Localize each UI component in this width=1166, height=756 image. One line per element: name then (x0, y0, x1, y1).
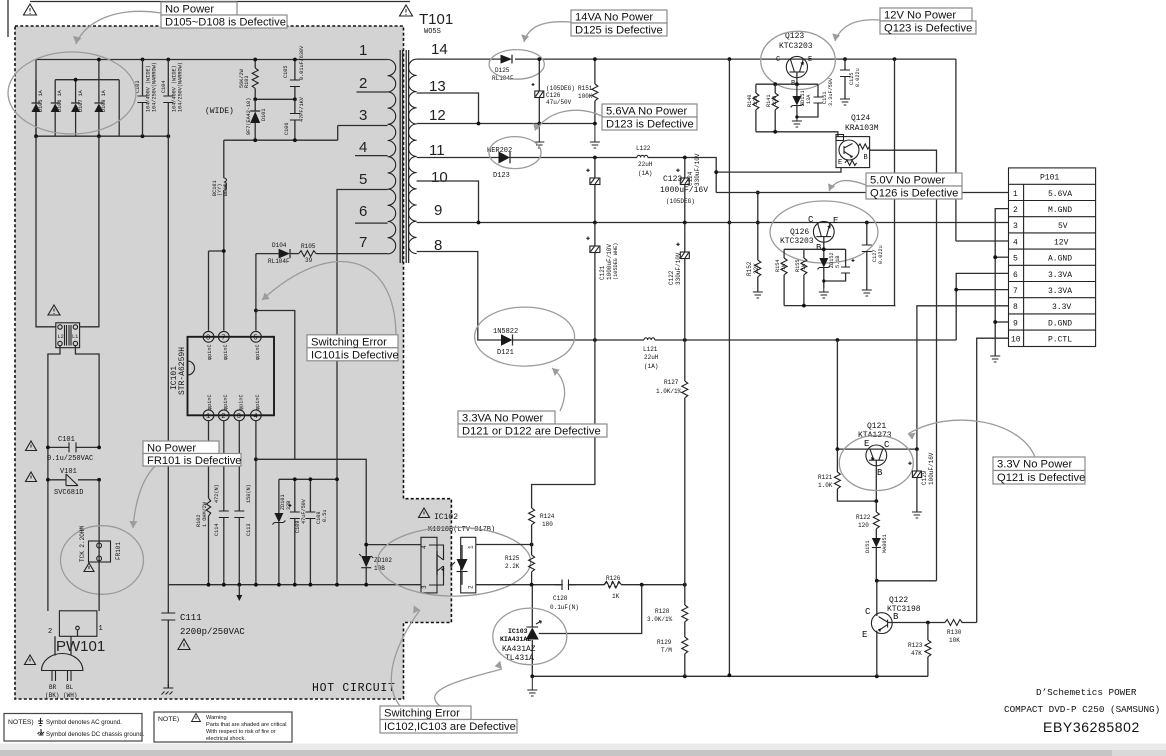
svg-text:KTC3203: KTC3203 (779, 42, 813, 51)
wire bridge right column down to L101 (80, 136, 99, 327)
warning triangle V101 row (26, 472, 37, 482)
svg-text:P101: P101 (1040, 174, 1059, 183)
svg-text:2: 2 (48, 628, 52, 636)
svg-text:D.GND: D.GND (1048, 319, 1072, 328)
callout arc Q126 (829, 181, 866, 191)
IC101 pin1 bottom (203, 394, 214, 421)
callout box 14VA No Power (571, 10, 667, 37)
svg-text:5.6VA No Power: 5.6VA No Power (606, 106, 688, 118)
svg-text:47uF/50V: 47uF/50V (301, 498, 307, 524)
svg-text:56K/2W: 56K/2W (239, 68, 245, 88)
svg-text:HOT CIRCUIT: HOT CIRCUIT (312, 682, 396, 695)
svg-text:3.3uF/50V: 3.3uF/50V (828, 77, 834, 106)
svg-text:0.022u: 0.022u (878, 245, 884, 264)
wire pin6 stub (355, 222, 388, 224)
svg-text:220: 220 (753, 96, 759, 105)
svg-text:14VA No Power: 14VA No Power (575, 12, 653, 24)
svg-text:TCK 2.2OHM: TCK 2.2OHM (79, 526, 86, 562)
wire 5V line pin9 bus through Q126 to P101 (729, 222, 1008, 224)
svg-text:5: 5 (359, 171, 367, 188)
svg-text:B: B (816, 243, 822, 253)
svg-text:3.3VA: 3.3VA (1048, 271, 1072, 280)
resistor R129 (657, 637, 688, 676)
callout arc IC101 (262, 262, 396, 335)
svg-text:R122: R122 (856, 514, 871, 521)
capacitor C111 (161, 585, 245, 688)
diode ZD121 (865, 534, 888, 580)
resistor R126 (604, 575, 621, 600)
resistor R151 (578, 59, 598, 125)
svg-text:C114: C114 (214, 524, 220, 536)
svg-text:22K: 22K (753, 263, 760, 274)
svg-text:C104: C104 (161, 81, 167, 93)
svg-text:47K: 47K (911, 650, 922, 657)
svg-text:180: 180 (542, 521, 553, 528)
svg-text:0.01uF/630V: 0.01uF/630V (299, 45, 305, 80)
svg-text:2: 2 (221, 413, 225, 421)
svg-text:E: E (808, 56, 812, 64)
svg-text:R121: R121 (818, 474, 833, 481)
svg-text:13A: 13A (806, 94, 812, 104)
svg-text:3: 3 (359, 107, 367, 124)
svg-text:Symbol denotes AC ground.: Symbol denotes AC ground. (46, 719, 122, 726)
svg-text:C128: C128 (553, 595, 568, 602)
wire 14VA long vertical feed (728, 59, 730, 675)
svg-text:12: 12 (429, 107, 446, 124)
IC101 pin4 bottom (251, 394, 262, 421)
svg-text:1K: 1K (612, 593, 620, 600)
Q123 lower rail wire to Q124 (756, 132, 838, 137)
svg-text:V101: V101 (60, 468, 77, 476)
bead BC101 (212, 140, 229, 245)
resistor R125 (505, 545, 535, 585)
svg-text:1000uF/16V: 1000uF/16V (660, 186, 708, 195)
wire 3.3VA drop to Q121 (836, 340, 838, 449)
svg-text:1.0K/1%: 1.0K/1% (656, 388, 682, 395)
Q126 base top rail wire (784, 249, 846, 261)
wire P101 pin9 D.GND stub (995, 321, 1008, 323)
svg-text:104/250V(NARROW): 104/250V(NARROW) (152, 62, 158, 112)
svg-text:φpinC: φpinC (239, 394, 245, 410)
svg-text:TL431A: TL431A (505, 654, 534, 663)
capacitor C129 (908, 449, 935, 512)
top B+ bus wire pin1 (36, 59, 388, 61)
svg-text:With respect to risk of fire o: With respect to risk of fire or (206, 729, 276, 735)
transistor Q122 (862, 581, 921, 677)
diode D105 (32, 80, 45, 137)
capacitor C109 (289, 479, 308, 584)
svg-text:C: C (776, 56, 780, 64)
resistor R121 (818, 449, 876, 501)
snubber lower rail wire to pin3 (224, 126, 338, 141)
svg-text:3.3VA No Power: 3.3VA No Power (462, 413, 544, 425)
diode D101 (246, 98, 267, 141)
zener ZD152 (818, 252, 842, 288)
callout arc D105 (76, 11, 161, 44)
resistor R141 (766, 84, 778, 132)
warning triangle below C111 (178, 639, 190, 650)
svg-text:T101: T101 (419, 11, 453, 28)
ellipse highlight FR101 (61, 526, 144, 595)
fuse FR101 (79, 526, 122, 611)
diode D107 (71, 80, 84, 137)
svg-text:COMPACT DVD-P C250 (SAMSUNG): COMPACT DVD-P C250 (SAMSUNG) (1004, 704, 1160, 715)
ground C125 (840, 99, 850, 105)
svg-text:3: 3 (421, 585, 428, 589)
capacitor C153 (824, 259, 855, 281)
svg-text:1: 1 (206, 413, 210, 421)
svg-text:0.1u/250VAC: 0.1u/250VAC (47, 455, 93, 463)
svg-text:6: 6 (1013, 271, 1018, 280)
svg-text:D105~D108 is Defective: D105~D108 is Defective (165, 17, 286, 29)
hot circuit shaded region (15, 26, 451, 699)
svg-text:D105 1A: D105 1A (38, 89, 44, 112)
diode D123 HER202 (487, 147, 512, 180)
capacitor C127 (862, 223, 884, 291)
svg-text:D107 1A: D107 1A (78, 89, 84, 112)
svg-text:EBY36285802: EBY36285802 (1043, 719, 1140, 735)
diode D104 (256, 242, 290, 265)
svg-text:D’Schemetics POWER: D’Schemetics POWER (1036, 687, 1137, 698)
svg-text:D123 is Defective: D123 is Defective (606, 119, 694, 131)
gap for C128 (563, 584, 568, 586)
svg-text:E: E (864, 439, 869, 449)
wire P101 pin4 12V stub (956, 240, 1009, 242)
diode D108 (94, 60, 107, 137)
ellipse highlight D105-D108 bridge (8, 52, 136, 134)
svg-text:No Power: No Power (165, 4, 214, 16)
resistor R105 (291, 243, 316, 264)
wire 3.3VA rail (655, 339, 956, 341)
node dots bridge (74, 78, 78, 82)
svg-text:(BK): (BK) (45, 692, 59, 699)
wire Q124 E down-left (716, 168, 841, 173)
callout arc D123 (537, 110, 602, 129)
wire left leg of bridge (35, 60, 37, 137)
ellipse highlight Q126 (770, 201, 878, 263)
callout box No Power D105 (161, 2, 287, 29)
callout box 5.0V No Power (866, 173, 962, 200)
ground M.GND (990, 356, 1000, 362)
svg-text:3.3VA: 3.3VA (1048, 287, 1072, 296)
svg-text:3: 3 (237, 413, 241, 421)
svg-text:WO5S: WO5S (424, 28, 441, 36)
svg-text:L2: L2 (58, 334, 64, 340)
svg-text:(WH): (WH) (63, 692, 77, 699)
svg-text:1000uF/10V: 1000uF/10V (606, 244, 613, 280)
svg-text:L121: L121 (643, 346, 658, 353)
svg-text:Q123 is Defective: Q123 is Defective (884, 23, 972, 35)
svg-text:1K: 1K (781, 263, 787, 270)
resistor R130 (945, 620, 962, 645)
svg-text:B: B (877, 468, 883, 478)
svg-text:472(N): 472(N) (214, 484, 220, 503)
resistor R122 (856, 501, 879, 538)
svg-text:12V No Power: 12V No Power (884, 10, 956, 22)
svg-text:R126: R126 (606, 575, 621, 582)
svg-text:Q121 is Defective: Q121 is Defective (997, 472, 1085, 484)
callout box 5.6VA No Power (602, 104, 697, 131)
ellipse highlight IC102 (377, 527, 530, 596)
svg-text:5V: 5V (1058, 222, 1068, 231)
IC101 pin8 pin7 tie wire (209, 246, 224, 331)
svg-text:2: 2 (359, 75, 367, 92)
wire pin3 line (338, 125, 388, 127)
resistor R140 (747, 84, 759, 132)
svg-text:7: 7 (1013, 287, 1018, 296)
svg-text:M.GND: M.GND (1048, 206, 1072, 215)
svg-text:C111: C111 (180, 613, 202, 623)
callout arc Q123 (835, 20, 880, 41)
svg-text:B: B (893, 612, 899, 622)
resistor R127 (656, 340, 688, 585)
IC101 pin8 top (203, 331, 214, 360)
svg-text:R152: R152 (746, 261, 753, 276)
svg-text:C124: C124 (687, 171, 694, 186)
svg-text:Q121: Q121 (867, 422, 886, 431)
svg-text:C123: C123 (663, 175, 682, 184)
svg-text:Q123: Q123 (785, 32, 804, 41)
IC102 LED (451, 545, 468, 585)
svg-text:2: 2 (468, 585, 475, 589)
svg-text:1: 1 (468, 545, 475, 549)
ellipse highlight Q123 (761, 31, 836, 89)
capacitor C103 (135, 60, 158, 137)
capacitor C101 (47, 436, 99, 463)
svg-text:C129: C129 (921, 470, 928, 485)
svg-text:4: 4 (253, 413, 257, 421)
svg-text:E: E (862, 630, 867, 640)
Q126 base bottom rail wire (784, 305, 895, 307)
capacitor C104 (161, 60, 184, 137)
svg-text:C126: C126 (546, 92, 561, 99)
svg-text:3: 3 (1013, 222, 1018, 231)
wire bus pin9 long (417, 222, 730, 224)
wire V101 right column down to FR101 (98, 480, 100, 544)
ground IC103 (527, 676, 537, 696)
svg-text:120: 120 (858, 522, 869, 529)
svg-text:(1A): (1A) (644, 363, 658, 370)
svg-text:2: 2 (1013, 206, 1018, 215)
svg-text:330uF/10V: 330uF/10V (675, 252, 682, 285)
svg-text:C105: C105 (283, 66, 289, 78)
svg-text:KRA103M: KRA103M (845, 124, 879, 133)
resistor R155 (795, 258, 807, 306)
svg-text:electrical shock.: electrical shock. (206, 736, 246, 742)
svg-text:E: E (833, 216, 838, 226)
capacitor C126 (532, 59, 575, 123)
wire Q126 rail right leg up (894, 305, 897, 307)
capacitor C105 (283, 45, 305, 99)
svg-text:9: 9 (1013, 319, 1018, 328)
svg-text:22uH: 22uH (644, 354, 659, 361)
ellipse highlight D123 (489, 137, 541, 169)
svg-text:FR101 is Defective: FR101 is Defective (147, 455, 242, 467)
svg-text:C101: C101 (58, 436, 75, 444)
callout arc IC103 (435, 669, 502, 706)
Q123 base rail wire (756, 83, 818, 85)
svg-text:1: 1 (99, 625, 103, 633)
snubber node rail wire (255, 98, 295, 100)
wire IC101 pin2 down (223, 421, 225, 511)
svg-text:R105: R105 (301, 243, 316, 250)
svg-text:C: C (808, 215, 814, 225)
capacitor C123 (586, 158, 708, 223)
wire pin4 feedback jog node (254, 457, 258, 461)
svg-text:R127: R127 (664, 379, 679, 386)
svg-text:4: 4 (359, 139, 367, 156)
svg-text:100K: 100K (578, 93, 593, 100)
svg-text:R123: R123 (908, 642, 923, 649)
svg-text:1: 1 (1013, 190, 1018, 199)
svg-text:R125: R125 (505, 555, 520, 562)
wire ZD102 top to IC102 pin4 (366, 544, 421, 546)
node dot R103 top (253, 58, 257, 62)
svg-text:6: 6 (359, 203, 367, 220)
page edge scan line top (30, 1, 410, 3)
secondary pin numbers 14-8 (429, 41, 448, 254)
svg-text:12V: 12V (1054, 238, 1069, 247)
wire P101 pin2 M.GND (995, 209, 1008, 356)
capacitor C124 (676, 153, 701, 222)
svg-text:E: E (838, 159, 842, 167)
svg-text:φpinC: φpinC (255, 394, 261, 410)
svg-text:Q122: Q122 (889, 596, 908, 605)
capacitor C122 (668, 223, 689, 341)
svg-text:C: C (865, 607, 871, 617)
svg-text:100uF/16V: 100uF/16V (928, 452, 935, 485)
transistor Q123 (776, 32, 813, 88)
svg-text:BL: BL (66, 684, 74, 691)
wire P.CTL riser (977, 338, 1009, 622)
IC101 pin3 bottom (234, 394, 245, 421)
svg-text:R130: R130 (947, 629, 962, 636)
svg-text:R151: R151 (578, 85, 593, 92)
svg-text:C113: C113 (246, 524, 252, 536)
ground stub C126 (537, 122, 541, 126)
svg-text:3.0K/1%: 3.0K/1% (647, 616, 673, 623)
svg-text:9F7(EA42-10): 9F7(EA42-10) (246, 98, 252, 135)
wire pin2 stub (357, 91, 388, 93)
svg-text:Warning: Warning (206, 715, 227, 721)
bottom scan band (0, 744, 1166, 751)
wire pin5 down leg (337, 190, 388, 585)
svg-text:7: 7 (359, 234, 367, 251)
svg-text:47u/50V: 47u/50V (546, 99, 572, 106)
wire pin13 stub tie (417, 93, 479, 124)
svg-text:φpinC: φpinC (255, 344, 261, 360)
svg-text:D123: D123 (493, 172, 510, 180)
diode D125 (492, 55, 514, 82)
svg-text:NOTES): NOTES) (8, 719, 34, 726)
rect mask R126 (605, 584, 622, 586)
svg-text:IC101is Defective: IC101is Defective (311, 350, 399, 362)
svg-text:BR: BR (49, 684, 57, 691)
capacitor C106 (284, 96, 305, 140)
wire IC101 pin1 down (208, 421, 210, 498)
svg-text:RL104F: RL104F (268, 258, 290, 265)
svg-text:10K: 10K (949, 637, 960, 644)
svg-text:D106 1A: D106 1A (57, 89, 63, 112)
svg-text:1K: 1K (801, 263, 807, 270)
optocoupler IC102 left box (421, 537, 437, 593)
wire 3.3VA to R124 jog (532, 340, 595, 508)
warning triangle IC102 (419, 508, 430, 518)
callout box 3.3VA No Power (458, 411, 607, 438)
capacitor C121 (586, 223, 619, 341)
svg-text:(105DEG): (105DEG) (666, 198, 695, 205)
svg-text:10: 10 (431, 169, 448, 186)
dots 14VA line (537, 57, 541, 61)
svg-text:PW101: PW101 (56, 638, 105, 655)
svg-text:11: 11 (429, 142, 445, 159)
zener ZD102 (359, 545, 392, 585)
svg-text:D104: D104 (272, 242, 287, 249)
wire PW101 pins to box (55, 636, 71, 655)
primary pin numbers 1-7 (359, 42, 367, 251)
svg-text:φpinC: φpinC (223, 344, 229, 360)
wire L101 right down (75, 346, 99, 448)
capacitor C113 (234, 484, 252, 584)
svg-text:0.5u: 0.5u (322, 510, 328, 522)
svg-text:Parts that are shaded are crit: Parts that are shaded are critical (206, 722, 287, 728)
wire IC102 pin1 to R124 node (476, 544, 532, 546)
wire P101 pin5 A.GND stub (995, 256, 1008, 258)
capacitor C125 (840, 59, 861, 99)
svg-text:Switching Error: Switching Error (384, 708, 460, 720)
AC ground symbol below C111 (162, 684, 174, 695)
svg-text:IC103: IC103 (508, 628, 528, 635)
IC101 notch (188, 361, 195, 375)
wire bottom net (532, 675, 928, 677)
svg-text:5: 5 (253, 335, 257, 343)
svg-text:5.1B: 5.1B (835, 256, 841, 268)
svg-text:1.0K: 1.0K (818, 482, 833, 489)
capacitor C128 (550, 580, 579, 612)
warning triangle top-left (24, 4, 37, 15)
notes box 2 (154, 712, 292, 742)
IC101 body (188, 337, 275, 416)
resistor R154 (775, 258, 787, 306)
svg-text:5: 5 (1013, 255, 1018, 264)
wire 0V bus pin9/10 (417, 181, 479, 223)
wire IC101 pin4 down (255, 421, 257, 585)
wire IC101 pin3 down (238, 421, 240, 511)
hot circuit dashed border (15, 26, 451, 699)
svg-text:1N5822: 1N5822 (493, 328, 518, 336)
svg-text:A.GND: A.GND (1048, 255, 1072, 264)
wire feedback to ZD102 column (256, 459, 366, 555)
svg-text:STR-A6259H: STR-A6259H (178, 347, 187, 395)
svg-text:(1A): (1A) (638, 170, 652, 177)
callout box Switching Error IC102 (380, 706, 517, 733)
bridge inner rail wire (55, 79, 119, 81)
wire pin4 stub (355, 155, 388, 157)
svg-text:D121 or D122 are Defective: D121 or D122 are Defective (462, 426, 601, 438)
svg-text:158(N): 158(N) (246, 484, 252, 503)
svg-text:KIA431AZ: KIA431AZ (500, 636, 531, 643)
connector P101 table (1009, 168, 1096, 347)
svg-text:SVC681D: SVC681D (54, 489, 83, 497)
svg-text:5.0V No Power: 5.0V No Power (870, 175, 946, 187)
svg-text:Q126: Q126 (790, 228, 809, 237)
svg-text:220: 220 (772, 96, 778, 105)
callout box 12V No Power (880, 8, 976, 35)
ellipse highlight IC103 (493, 608, 567, 665)
callout arc D121 (552, 368, 565, 411)
resistor R103 (239, 60, 258, 100)
wire pin7 stub (956, 289, 1008, 291)
